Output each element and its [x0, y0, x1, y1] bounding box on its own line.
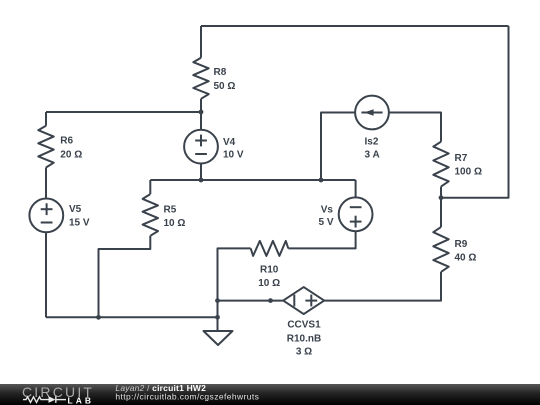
wire bottom rail	[46, 316, 218, 318]
label Is2 value	[365, 136, 380, 160]
label R10 value	[258, 265, 280, 290]
wire Vs top lead	[355, 180, 357, 197]
svg-text:Vs: Vs	[321, 205, 334, 216]
wire V5 bottom to bottom rail	[45, 232, 47, 317]
label V5 value	[69, 204, 90, 228]
node V4 bottom	[199, 178, 204, 183]
wire R10 left lead	[218, 248, 251, 331]
ground	[204, 331, 233, 345]
resistor R5	[143, 194, 158, 236]
label R9 value	[455, 239, 477, 264]
wire R5 bottom lead	[99, 236, 151, 317]
wire R6 to V5	[45, 168, 47, 199]
svg-text:Is2: Is2	[365, 136, 379, 147]
svg-text:10 V: 10 V	[223, 150, 244, 161]
resistor R9	[433, 227, 448, 272]
wire R6 top lead	[45, 112, 47, 126]
svg-text:R10.nB: R10.nB	[287, 334, 321, 345]
label CCVS1 value	[287, 320, 321, 358]
label R6 value	[60, 136, 82, 161]
svg-text:R7: R7	[455, 153, 468, 164]
label Vs value	[318, 205, 333, 228]
wire R5 top lead	[149, 180, 151, 194]
wire R9 bottom lead	[324, 272, 441, 301]
svg-text:3 Ω: 3 Ω	[296, 347, 312, 358]
svg-text:R9: R9	[455, 239, 468, 250]
wire right rail	[441, 26, 509, 198]
svg-text:R6: R6	[60, 136, 73, 147]
label R5 value	[164, 205, 186, 230]
wire Is2 right lead	[389, 113, 441, 142]
svg-text:R5: R5	[164, 205, 177, 216]
svg-text:20 Ω: 20 Ω	[60, 150, 82, 161]
resistor R10	[251, 241, 289, 256]
node A upper	[215, 298, 220, 303]
svg-text:V4: V4	[223, 137, 236, 148]
svg-text:10 Ω: 10 Ω	[258, 278, 280, 289]
svg-text:3 A: 3 A	[365, 149, 380, 160]
svg-text:R10: R10	[260, 265, 279, 276]
logo glyph resistor-diode	[23, 396, 66, 403]
label R8 value	[214, 67, 236, 92]
node R7-R9	[439, 195, 444, 200]
voltage source Vs	[339, 197, 373, 231]
svg-text:http://circuitlab.com/cgszefeh: http://circuitlab.com/cgszefehwruts	[115, 392, 259, 402]
current source Is2	[355, 96, 389, 130]
svg-text:V5: V5	[69, 204, 82, 215]
wire middle horizontal	[150, 179, 355, 181]
node CCVS1 left	[268, 298, 273, 303]
dependent source CCVS1	[283, 287, 324, 314]
resistor R7	[433, 142, 448, 187]
svg-text:50 Ω: 50 Ω	[214, 81, 236, 92]
wire R8 top lead	[200, 26, 202, 58]
wire Is2 left lead	[321, 113, 355, 181]
wire Vs bottom lead	[288, 231, 355, 248]
svg-text:R8: R8	[214, 67, 227, 78]
label R7 value	[455, 153, 482, 178]
label V4 value	[223, 137, 244, 161]
wire V4 bottom lead	[200, 163, 202, 180]
wire V4 top lead	[200, 112, 202, 130]
resistor R6	[38, 126, 53, 168]
svg-text:15 V: 15 V	[69, 217, 90, 228]
svg-text:LAB: LAB	[68, 395, 94, 405]
wire upper-left horizontal	[46, 111, 201, 113]
resistor R8	[193, 58, 208, 99]
svg-text:5 V: 5 V	[318, 217, 333, 228]
svg-text:40 Ω: 40 Ω	[455, 253, 477, 264]
voltage source V5	[29, 199, 63, 233]
node Is2 left	[319, 178, 324, 183]
node R8-V4	[199, 110, 204, 115]
svg-text:CCVS1: CCVS1	[287, 320, 321, 331]
voltage source V4	[184, 130, 218, 164]
wire top rail	[201, 25, 509, 27]
wire R7-R9 node to R9	[440, 198, 442, 227]
wire node A to CCVS1 left	[218, 300, 284, 302]
node R5 bottom rail	[96, 315, 101, 320]
node ground junction	[215, 315, 220, 320]
wire R7 bottom lead	[440, 187, 442, 198]
wire R8 bottom lead	[200, 99, 202, 112]
svg-text:10 Ω: 10 Ω	[164, 218, 186, 229]
svg-text:100 Ω: 100 Ω	[455, 167, 482, 178]
